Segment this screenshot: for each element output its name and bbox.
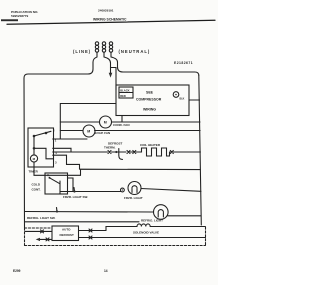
cold control box [45, 173, 68, 194]
svg-text:(NEUTRAL): (NEUTRAL) [119, 49, 151, 54]
freezer light bulb [128, 182, 141, 195]
footer [13, 269, 108, 273]
splice X [89, 236, 92, 239]
timer terminal numbers [53, 129, 57, 165]
power cord coil 1 [95, 42, 98, 57]
svg-text:SOLENOID VALVE: SOLENOID VALVE [133, 230, 159, 234]
wire jog to cond fan line [121, 116, 123, 123]
wire neutral-side drop from cord to right bus [111, 57, 199, 76]
cold control switch [49, 177, 61, 194]
svg-text:BLK: BLK [180, 98, 185, 101]
dashed option boundary [25, 227, 206, 246]
svg-text:M: M [104, 121, 107, 125]
svg-text:WIRING: WIRING [143, 108, 156, 112]
wire compressor to right border [189, 99, 200, 101]
power cord coil 2 [102, 42, 105, 57]
splice X [41, 230, 44, 233]
svg-text:WIRING SCHEMATIC: WIRING SCHEMATIC [93, 18, 127, 22]
refrigerator light switch line [25, 211, 154, 214]
timer motor [30, 155, 37, 162]
wire top feed to timer [60, 104, 116, 140]
wire left border vertical [23, 78, 26, 228]
svg-text:COLD: COLD [32, 182, 41, 186]
splice X [108, 151, 111, 154]
evaporator fan motor [83, 125, 95, 137]
wire timer terminal-3 path [53, 155, 80, 169]
refrigerator light switch [56, 208, 58, 213]
svg-text:BLACK: BLACK [120, 88, 129, 92]
refrigerator light bulb [154, 205, 169, 220]
svg-text:FRZR. LIGHT SW.: FRZR. LIGHT SW. [63, 195, 88, 199]
wire refrig light to border [168, 215, 201, 217]
label DEFROST THERM. [104, 141, 123, 149]
svg-text:M: M [33, 157, 36, 161]
defrost timer box [28, 128, 54, 167]
wire line-side drop from cord to left bus [24, 57, 97, 78]
wire auto defrost right top [79, 230, 107, 232]
defrost heater line [53, 151, 108, 153]
solenoid coil [137, 224, 150, 227]
svg-text:E2182671: E2182671 [174, 61, 193, 65]
svg-text:3: 3 [55, 160, 57, 164]
condenser fan line [60, 121, 99, 123]
splice X [127, 151, 130, 154]
terminal block BLACK/RED [119, 87, 133, 98]
wire freezer light to border [141, 189, 201, 192]
svg-text:THERM.: THERM. [104, 146, 116, 150]
svg-text:(LINE): (LINE) [73, 49, 91, 54]
timer switch arm [33, 131, 53, 159]
wire branch to compressor [111, 68, 117, 91]
wire timer terminal-1 jog [53, 148, 71, 152]
splice X [170, 151, 173, 154]
svg-text:FRZR. LIGHT: FRZR. LIGHT [124, 196, 143, 200]
compressor shell ground symbol [173, 92, 184, 101]
defrost thermostat [119, 149, 123, 160]
svg-text:REFRIG. LIGHT SW.: REFRIG. LIGHT SW. [27, 216, 55, 220]
evaporator fan line [60, 130, 82, 132]
svg-text:M: M [87, 130, 90, 134]
auto defrost box [52, 226, 79, 241]
label COLD CONT. [32, 182, 41, 191]
svg-text:AUTO: AUTO [62, 228, 71, 232]
svg-text:5995208779: 5995208779 [11, 14, 28, 18]
solenoid valve line [106, 227, 137, 231]
wire jog up to right border [81, 169, 201, 175]
header rule [7, 20, 215, 24]
header thick bar [1, 19, 18, 21]
svg-text:14: 14 [104, 269, 108, 273]
svg-text:E299: E299 [13, 269, 21, 273]
splice X [133, 151, 136, 154]
condenser fan motor [100, 116, 112, 128]
compressor box U1 [116, 85, 189, 116]
svg-text:REFRIG. LIGHT: REFRIG. LIGHT [141, 218, 163, 222]
svg-text:COND. FAN: COND. FAN [113, 123, 130, 127]
freezer light switch line [60, 191, 121, 193]
wire right border vertical [199, 76, 202, 226]
svg-text:COIL HEATER: COIL HEATER [140, 143, 161, 147]
svg-text:RED: RED [120, 94, 126, 98]
splice node [121, 188, 125, 192]
splice X [46, 238, 49, 241]
svg-text:CONT.: CONT. [32, 187, 41, 191]
svg-text:DEFROST: DEFROST [60, 233, 75, 237]
power cord coil 3 [109, 42, 112, 57]
wire auto defrost right bottom [79, 237, 206, 239]
wire auto defrost left bottom with arrow [40, 238, 53, 240]
neutral return line [25, 221, 140, 223]
wire ground conductor with arrow [104, 57, 111, 73]
svg-text:EVAP. FAN: EVAP. FAN [95, 131, 110, 135]
svg-text:240929191: 240929191 [98, 9, 114, 13]
splice X [89, 229, 92, 232]
svg-text:SEE: SEE [146, 90, 154, 94]
svg-text:COMPRESSOR: COMPRESSOR [136, 97, 162, 101]
wire timer terminal-2 link [53, 138, 87, 140]
wire timer motor down [34, 162, 81, 175]
header publication text [11, 9, 127, 22]
svg-text:2: 2 [53, 129, 55, 133]
wire cold control out [68, 178, 74, 192]
node [115, 151, 117, 153]
defrost heater element [140, 148, 170, 156]
wire auto defrost left top [25, 230, 52, 232]
freezer light switch [73, 188, 75, 193]
text SEE COMPRESSOR WIRING [136, 90, 162, 111]
